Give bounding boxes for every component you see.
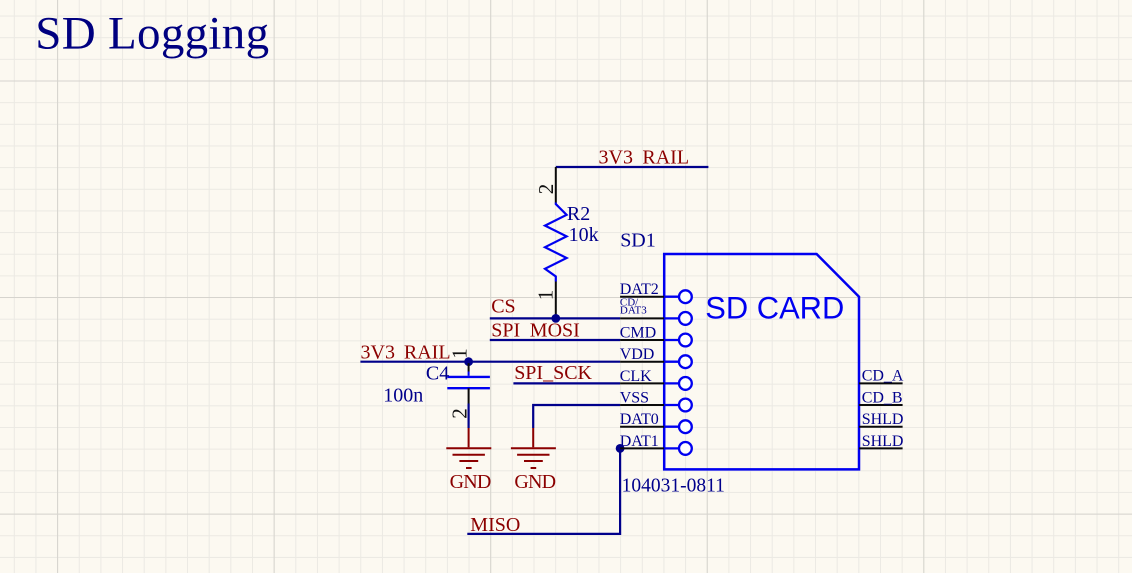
resistor R2 pin 2 wire [555,167,557,203]
svg-text:DAT3: DAT3 [620,305,647,317]
junction at R2/CS [551,314,560,323]
svg-text:GND: GND [450,471,491,493]
pin DAT1 [620,447,664,449]
wire SPI_MOSI [490,339,620,341]
svg-text:SPI: SPI [491,319,520,341]
wire VDD 3V3 [360,361,620,363]
right pins: black pin lines [859,383,903,448]
svg-text:10k: 10k [569,224,599,246]
svg-text:RAIL: RAIL [642,147,689,169]
svg-text:DAT1: DAT1 [620,433,659,450]
pin CLK [620,382,664,384]
pin SHLD b [859,447,903,449]
svg-text:C4: C4 [426,363,449,385]
svg-text:CD_B: CD_B [862,389,903,406]
pin DAT2 [620,296,664,298]
svg-text:SHLD: SHLD [862,433,904,450]
pin CD_B [859,404,903,406]
svg-text:SD1: SD1 [620,230,656,252]
svg-text:2: 2 [447,408,471,419]
svg-text:3V3: 3V3 [599,147,633,169]
svg-text:3V3: 3V3 [361,341,395,363]
wire 3V3 rail top [556,166,709,168]
svg-text:MOSI: MOSI [530,319,580,341]
svg-text:CD_A: CD_A [862,368,904,385]
pin CD_A [859,382,903,384]
svg-text:CS: CS [491,296,515,318]
svg-text:1: 1 [533,290,557,301]
pin SHLD a [859,426,903,428]
svg-text:104031-0811: 104031-0811 [622,475,725,496]
ground symbol under VSS [511,428,556,468]
capacitor C4 plates [447,377,490,388]
svg-text:R2: R2 [567,203,590,225]
wire CS [490,317,620,319]
ground symbol under C4 [446,428,491,468]
wire SPI_SCK [513,382,620,384]
left pins: black pin lines [620,297,664,449]
svg-text:100n: 100n [383,385,423,407]
svg-text:SD CARD: SD CARD [705,291,844,326]
pin CMD [620,339,664,341]
svg-text:DAT2: DAT2 [620,281,659,298]
left pin stubs and circles [664,290,692,454]
wire MISO [467,448,620,534]
right pin name labels [862,368,904,450]
svg-text:CLK: CLK [620,368,652,385]
capacitor C4 pin 1 [468,363,470,371]
wire C4 to gnd [468,404,470,429]
resistor R2 body [545,203,567,282]
pin VDD [620,361,664,363]
svg-text:CMD: CMD [620,324,656,341]
pin CD/DAT3 [620,317,664,319]
SD1 component body [664,254,859,469]
svg-text:GND: GND [514,471,555,493]
capacitor C4 pin 2 [468,388,470,403]
svg-text:DAT0: DAT0 [620,411,659,428]
svg-text:2: 2 [534,184,558,195]
svg-text:SHLD: SHLD [862,411,904,428]
svg-text:RAIL: RAIL [404,341,451,363]
wire VSS to gnd [533,405,620,428]
junction at C4/VDD [464,357,473,366]
svg-text:VDD: VDD [620,346,655,363]
junction at DAT1/MISO [616,444,625,453]
svg-text:SPI_SCK: SPI_SCK [514,362,592,384]
svg-text:MISO: MISO [470,514,520,536]
pin VSS [620,404,664,406]
svg-text:VSS: VSS [620,390,649,407]
left pin name labels [620,281,659,450]
pin DAT0 [620,426,664,428]
svg-text:1: 1 [447,348,471,359]
resistor R2 pin 1 wire [555,282,557,319]
svg-text:SD Logging: SD Logging [35,8,269,60]
